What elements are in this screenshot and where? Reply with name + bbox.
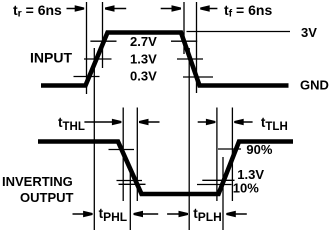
arrow pointing left at line x=130 (138, 213, 158, 215)
tTLH bracket line 10% (output rising) (216, 108, 218, 202)
svg-text:INVERTING: INVERTING (2, 174, 73, 189)
1.3V tick on input falling edge (177, 58, 203, 60)
tr measurement line 2.7V crossing (input rising) (102, 2, 104, 68)
90% tick on output falling edge (109, 149, 135, 151)
1.3V tick on output falling edge (117, 180, 143, 182)
arrow tf pointing left at line x=196.5 (206, 8, 217, 10)
2.7V tick on input rising edge (90, 40, 116, 42)
2.7V tick on input falling edge (171, 40, 197, 42)
tf measurement line 2.7V crossing (input falling) (183, 2, 185, 54)
90% tick on output rising edge (218, 148, 241, 150)
svg-text:OUTPUT: OUTPUT (20, 190, 74, 205)
input waveform (41, 33, 289, 86)
svg-text:INPUT: INPUT (30, 49, 72, 65)
arrow pointing left at line x=223 (231, 213, 247, 215)
tPLH bracket line 1.3V (output rising) (222, 157, 224, 230)
tr measurement line 0.3V crossing (input rising) (86, 2, 88, 94)
0.3V tick on input falling edge (183, 76, 213, 78)
arrow pointing right at line x=184 (161, 8, 174, 10)
tPLH reference line 1.3V crossing (input falling) (188, 48, 190, 230)
svg-text:1.3V: 1.3V (130, 51, 157, 66)
inverting output waveform (38, 142, 293, 195)
tTHL bracket line 10% (output falling) (136, 108, 138, 202)
arrow pointing left at line x=102 (110, 8, 126, 10)
tPHL reference line 1.3V crossing (input rising) (93, 48, 95, 230)
svg-text:GND: GND (300, 78, 329, 93)
0.3V tick on input rising edge (74, 76, 100, 78)
tTLH bracket line 90% (output rising) (231, 108, 233, 202)
svg-text:2.7V: 2.7V (130, 34, 157, 49)
arrow pointing right at line x=217 (198, 121, 208, 123)
svg-text:90%: 90% (246, 142, 272, 157)
tPHL bracket line 1.3V (output falling) (129, 170, 131, 230)
arrow pointing left at line x=137 (144, 121, 160, 123)
svg-text:tf = 6ns: tf = 6ns (224, 2, 272, 20)
arrow tPHL pointing right at line x=94 (73, 213, 86, 215)
svg-text:0.3V: 0.3V (130, 69, 157, 84)
arrow tPLH pointing right at line x=189 (167, 213, 180, 215)
10% tick on output falling edge (119, 183, 146, 185)
arrow tTHL pointing right at line x=123 (84, 121, 113, 123)
tf measurement line 0.3V crossing (input falling) (196, 2, 198, 93)
3V level reference line (187, 31, 291, 33)
1.3V tick on output rising edge (202, 179, 234, 181)
10% tick on output rising edge (197, 184, 232, 186)
svg-text:10%: 10% (233, 180, 259, 195)
arrow tTLH pointing left at line x=232 (240, 121, 253, 123)
tTHL bracket line 90% (output falling) (122, 108, 124, 202)
arrow tr pointing right at line x=86 (67, 8, 78, 10)
1.3V tick on input rising edge (84, 58, 112, 60)
svg-text:3V: 3V (301, 25, 317, 40)
